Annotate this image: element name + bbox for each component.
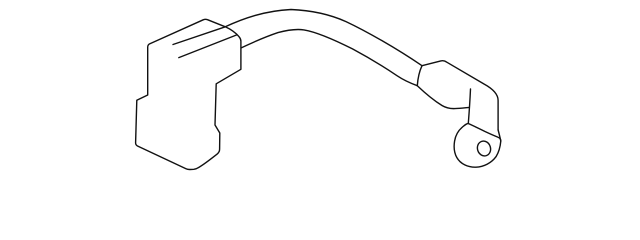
cable-to-sleeve boundary crease [417, 66, 422, 86]
cable bottom edge [241, 29, 417, 85]
cover detail ridge line 2 [179, 35, 237, 58]
heat-shrink sleeve top edge [422, 61, 498, 130]
ring terminal paddle outline [454, 123, 501, 167]
bolt hole in ring terminal [476, 139, 493, 157]
terminal cover body outline [136, 19, 241, 169]
ring terminal right edge (from sleeve to paddle) [498, 130, 501, 141]
heat-shrink sleeve bottom edge [417, 86, 469, 109]
cable top edge [225, 10, 422, 66]
sleeve crease line [468, 89, 470, 124]
cover detail ridge line 1 [173, 27, 225, 45]
